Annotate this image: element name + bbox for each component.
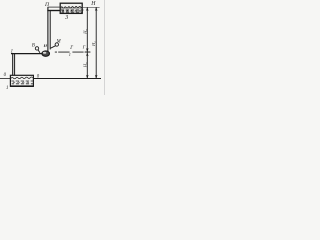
arrow up at level line right — [95, 7, 98, 11]
upper tank water surface underline — [61, 7, 82, 9]
suction pipe horizontal — [11, 53, 42, 55]
arrow down at datum — [86, 75, 89, 79]
upper level line to the right — [83, 6, 100, 8]
dim line Hг vertical — [95, 7, 97, 78]
svg-text:1: 1 — [6, 86, 8, 91]
lower tank thick bottom — [10, 85, 34, 87]
upper tank water hatch row 1 — [61, 9, 83, 11]
scan edge line right — [104, 0, 106, 95]
datum line 0-0 left segment — [0, 77, 10, 79]
lower tank hatch row 2 — [12, 83, 33, 85]
discharge pipe vertical left line — [47, 7, 49, 52]
upper tank water hatch row 2 — [61, 11, 83, 13]
svg-text:В: В — [32, 44, 35, 49]
suction pipe vertical left line — [12, 53, 14, 80]
discharge pipe horizontal lower line — [47, 10, 60, 12]
upper tank water curls row — [62, 10, 81, 13]
discharge pipe horizontal upper line — [48, 6, 61, 8]
dim line Hн/Hв vertical — [86, 7, 88, 78]
arrow down at datum right — [95, 75, 98, 79]
arrow up at level line — [86, 7, 89, 11]
suction pipe vertical right line — [14, 54, 16, 81]
lower tank water surface wave — [11, 77, 33, 79]
discharge pipe vertical right line — [49, 11, 51, 50]
pump 2 body — [42, 51, 50, 56]
lower tank curls row — [13, 81, 29, 84]
pump tick marks above pump — [44, 44, 46, 47]
axis line end segment at dimension line — [85, 51, 91, 53]
axis line Г-Г dashed from pump to dimension line — [55, 51, 91, 53]
upper tank 3 outline — [60, 3, 82, 13]
pump highlight — [43, 52, 46, 54]
manometer M stem — [51, 46, 56, 49]
paper background — [0, 0, 106, 95]
svg-text:3: 3 — [64, 15, 68, 21]
svg-text:1: 1 — [69, 52, 71, 57]
arrow down at axis — [86, 48, 89, 52]
svg-text:Н: Н — [90, 1, 96, 7]
manometer M gauge circle — [55, 43, 58, 46]
datum line 0-0 right segment — [34, 78, 101, 80]
lower tank hatch row 1 — [11, 80, 33, 82]
svg-text:Г: Г — [69, 46, 73, 51]
svg-text:Г: Г — [82, 45, 86, 50]
upper tank water surface wave — [61, 6, 83, 8]
vacuum gauge V circle — [35, 47, 38, 50]
lower tank 1 outline — [10, 75, 33, 86]
arrow up at axis — [86, 53, 89, 57]
vacuum gauge V stem — [38, 50, 40, 53]
